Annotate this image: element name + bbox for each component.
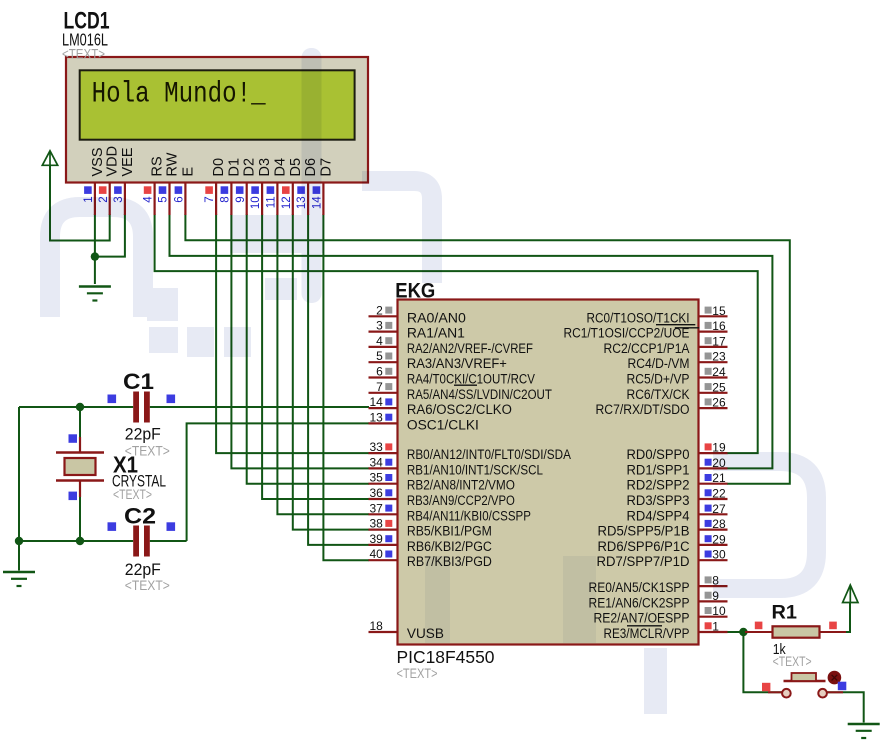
svg-text:10: 10 [250, 196, 262, 209]
svg-text:14: 14 [369, 395, 383, 409]
svg-text:9: 9 [235, 196, 247, 202]
svg-text:RA4/T0CKI/C1OUT/RCV: RA4/T0CKI/C1OUT/RCV [407, 372, 535, 387]
svg-text:28: 28 [712, 517, 726, 531]
svg-text:C2: C2 [124, 504, 156, 529]
svg-text:RA3/AN3/VREF+: RA3/AN3/VREF+ [407, 356, 507, 371]
svg-text:6: 6 [174, 196, 186, 202]
svg-text:RD7/SPP7/P1D: RD7/SPP7/P1D [597, 554, 690, 569]
svg-text:RE3/MCLR/VPP: RE3/MCLR/VPP [604, 626, 690, 641]
svg-text:D2: D2 [242, 158, 258, 177]
svg-text:VSS: VSS [90, 147, 106, 176]
svg-text:PIC18F4550: PIC18F4550 [397, 647, 495, 667]
svg-text:RC2/CCP1/P1A: RC2/CCP1/P1A [604, 341, 690, 356]
svg-text:VDD: VDD [105, 146, 121, 177]
svg-text:33: 33 [369, 440, 383, 454]
svg-text:34: 34 [369, 455, 383, 469]
svg-text:RE0/AN5/CK1SPP: RE0/AN5/CK1SPP [589, 580, 690, 595]
svg-text:RA0/AN0: RA0/AN0 [407, 310, 466, 325]
svg-text:RA2/AN2/VREF-/CVREF: RA2/AN2/VREF-/CVREF [407, 341, 533, 356]
svg-text:15: 15 [712, 304, 726, 318]
svg-text:10: 10 [712, 604, 726, 618]
svg-text:4: 4 [376, 334, 383, 348]
svg-text:39: 39 [369, 532, 383, 546]
svg-text:<TEXT>: <TEXT> [397, 665, 438, 681]
svg-text:36: 36 [369, 486, 383, 500]
svg-text:24: 24 [712, 365, 726, 379]
svg-text:VEE: VEE [120, 147, 136, 176]
svg-text:D4: D4 [272, 158, 288, 177]
svg-text:40: 40 [369, 547, 383, 561]
svg-text:<TEXT>: <TEXT> [773, 653, 812, 669]
svg-text:RB4/AN11/KBI0/CSSPP: RB4/AN11/KBI0/CSSPP [407, 508, 531, 523]
svg-text:35: 35 [369, 471, 383, 485]
svg-text:RB3/AN9/CCP2/VPO: RB3/AN9/CCP2/VPO [407, 493, 515, 508]
svg-text:3: 3 [376, 319, 383, 333]
svg-text:D3: D3 [257, 158, 273, 177]
svg-text:16: 16 [712, 319, 726, 333]
svg-text:11: 11 [266, 196, 278, 208]
svg-text:<TEXT>: <TEXT> [125, 577, 170, 593]
svg-text:1: 1 [712, 620, 719, 634]
svg-text:<TEXT>: <TEXT> [113, 487, 152, 502]
svg-text:RD5/SPP5/P1B: RD5/SPP5/P1B [598, 524, 690, 539]
svg-text:C1: C1 [123, 369, 154, 394]
svg-text:23: 23 [712, 350, 726, 364]
svg-text:<TEXT>: <TEXT> [62, 46, 105, 62]
svg-text:RB6/KBI2/PGC: RB6/KBI2/PGC [407, 539, 492, 554]
svg-text:RD2/SPP2: RD2/SPP2 [627, 478, 690, 493]
svg-text:7: 7 [376, 380, 383, 394]
svg-text:21: 21 [712, 471, 726, 485]
svg-text:5: 5 [158, 196, 170, 202]
svg-text:17: 17 [712, 334, 726, 348]
svg-text:RB5/KBI1/PGM: RB5/KBI1/PGM [407, 524, 492, 539]
svg-text:8: 8 [220, 196, 232, 202]
svg-text:D5: D5 [288, 158, 304, 177]
svg-text:RA1/AN1: RA1/AN1 [407, 326, 465, 341]
svg-text:RE2/AN7/OESPP: RE2/AN7/OESPP [594, 611, 690, 626]
svg-text:RC7/RX/DT/SDO: RC7/RX/DT/SDO [596, 402, 690, 417]
svg-text:R1: R1 [772, 603, 798, 624]
svg-text:RD6/SPP6/P1C: RD6/SPP6/P1C [598, 539, 690, 554]
svg-text:RD4/SPP4: RD4/SPP4 [627, 508, 690, 523]
svg-text:18: 18 [369, 619, 383, 633]
svg-text:13: 13 [369, 410, 383, 424]
svg-text:RC1/T1OSI/CCP2/UOE: RC1/T1OSI/CCP2/UOE [564, 326, 690, 341]
svg-text:2: 2 [376, 303, 383, 317]
svg-text:5: 5 [376, 349, 383, 363]
svg-text:OSC1/CLKI: OSC1/CLKI [407, 417, 479, 432]
svg-text:RC6/TX/CK: RC6/TX/CK [627, 387, 690, 402]
svg-text:D1: D1 [226, 158, 242, 177]
svg-text:D0: D0 [211, 158, 227, 177]
svg-text:RS: RS [150, 156, 166, 176]
svg-text:22pF: 22pF [125, 425, 161, 444]
svg-text:25: 25 [712, 380, 726, 394]
svg-text:RA5/AN4/SS/LVDIN/C2OUT: RA5/AN4/SS/LVDIN/C2OUT [407, 387, 552, 402]
svg-text:6: 6 [376, 365, 383, 379]
svg-text:Hola Mundo!_: Hola Mundo!_ [92, 78, 267, 112]
svg-text:RA6/OSC2/CLKO: RA6/OSC2/CLKO [407, 402, 512, 417]
svg-text:RC4/D-/VM: RC4/D-/VM [628, 356, 690, 371]
svg-text:RB1/AN10/INT1/SCK/SCL: RB1/AN10/INT1/SCK/SCL [407, 462, 543, 477]
svg-text:7: 7 [204, 196, 216, 202]
svg-text:4: 4 [143, 196, 155, 203]
svg-text:RW: RW [165, 152, 181, 176]
svg-text:RB2/AN8/INT2/VMO: RB2/AN8/INT2/VMO [407, 478, 515, 493]
svg-text:30: 30 [712, 548, 726, 562]
svg-text:RC5/D+/VP: RC5/D+/VP [627, 372, 690, 387]
svg-text:22: 22 [712, 487, 726, 501]
svg-text:27: 27 [712, 502, 726, 516]
svg-text:RC0/T1OSO/T1CKI: RC0/T1OSO/T1CKI [587, 310, 690, 325]
svg-text:29: 29 [712, 532, 726, 546]
svg-text:37: 37 [369, 501, 383, 515]
svg-text:RD1/SPP1: RD1/SPP1 [627, 462, 690, 477]
svg-text:26: 26 [712, 396, 726, 410]
svg-text:38: 38 [369, 517, 383, 531]
svg-text:E: E [180, 167, 196, 177]
svg-text:RD3/SPP3: RD3/SPP3 [627, 493, 690, 508]
svg-text:RB0/AN12/INT0/FLT0/SDI/SDA: RB0/AN12/INT0/FLT0/SDI/SDA [407, 447, 571, 462]
svg-text:RD0/SPP0: RD0/SPP0 [627, 447, 690, 462]
svg-text:12: 12 [281, 196, 293, 209]
svg-text:RE1/AN6/CK2SPP: RE1/AN6/CK2SPP [589, 595, 690, 610]
